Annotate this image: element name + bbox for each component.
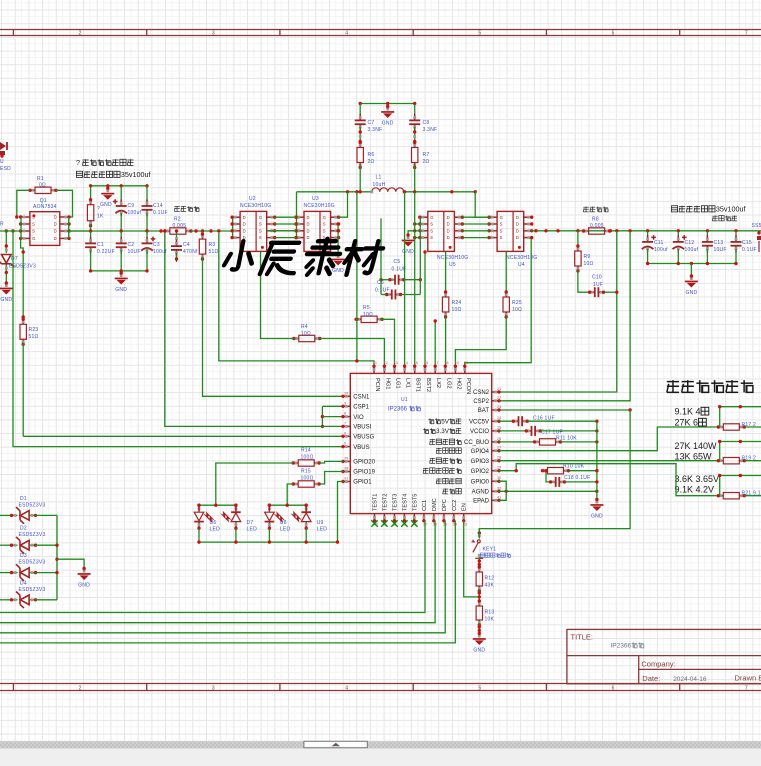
svg-text:GND: GND — [78, 583, 90, 589]
diode D1 body — [9, 507, 37, 524]
wire D2 anode from left edge — [0, 544, 9, 546]
wire D2 cathode to common — [35, 544, 57, 546]
svg-text:21: 21 — [497, 387, 501, 391]
svg-text:9: 9 — [344, 401, 346, 405]
wire R21 right to edge — [744, 495, 761, 497]
wire D3 anode from left edge — [0, 572, 9, 574]
svg-text:U6: U6 — [210, 520, 217, 526]
pin CSN1 of U1 — [343, 395, 350, 397]
capacitor C8 3.3NF body — [409, 114, 420, 131]
svg-text:S: S — [500, 228, 503, 233]
svg-text:C14: C14 — [153, 203, 163, 209]
capacitor C12 100uf — [677, 231, 679, 238]
svg-text:U8: U8 — [280, 520, 287, 526]
svg-text:2: 2 — [79, 686, 82, 692]
svg-text:R2: R2 — [174, 217, 181, 223]
resistor R15 body — [292, 481, 321, 487]
svg-text:U: U — [0, 159, 4, 165]
wire L1 rail down to U3 drains — [296, 192, 298, 238]
svg-text:S: S — [500, 222, 503, 227]
svg-text:D: D — [307, 235, 310, 240]
sheet frame top border — [0, 29, 761, 31]
svg-text:100uf: 100uf — [654, 247, 668, 253]
svg-text:GPIO0: GPIO0 — [471, 479, 490, 485]
svg-text:100Ω: 100Ω — [301, 476, 314, 482]
pin VCCIO of U1 — [492, 430, 499, 432]
svg-text:R24: R24 — [452, 300, 462, 306]
wire bus CC1 — [0, 521, 425, 613]
svg-text:VBUSG: VBUSG — [353, 435, 374, 441]
wire VIO net stub — [322, 416, 343, 418]
svg-text:NCE30H10G: NCE30H10G — [240, 203, 271, 209]
svg-text:D: D — [54, 229, 57, 234]
resistor R21 body — [717, 493, 746, 499]
pin TEST2 of U1 — [383, 514, 385, 521]
svg-text:100Ω: 100Ω — [301, 455, 314, 461]
svg-text:26: 26 — [497, 437, 501, 441]
svg-text:29: 29 — [497, 466, 501, 470]
pin CSN2 of U1 — [492, 391, 499, 393]
svg-text:VIO: VIO — [353, 415, 364, 421]
wire mid drop from L1 rail — [356, 192, 358, 361]
wire CSN2 sense drop — [500, 231, 617, 392]
wire D1 anode from left edge — [0, 514, 9, 516]
svg-text:NCE30H10G: NCE30H10G — [437, 255, 468, 261]
wire R6 to L1 rail — [359, 164, 361, 192]
wire L1 switch-node rail — [297, 191, 372, 193]
svg-text:S: S — [430, 228, 433, 233]
svg-text:51Ω: 51Ω — [29, 334, 39, 340]
wire R5 right leg to LG1 pin — [380, 319, 394, 366]
wire bus CC2 — [0, 521, 455, 643]
svg-text:1K: 1K — [97, 214, 104, 220]
wire U5 source stubs tie to BST1 column — [415, 223, 421, 225]
transistor U3 body — [294, 211, 340, 251]
svg-text:43K: 43K — [485, 583, 495, 589]
resistor R24 10R — [445, 251, 447, 293]
wire R14 right to GPIO20 — [319, 461, 343, 463]
capacitor C3 100uf — [146, 231, 148, 241]
resistor R9 body — [575, 244, 581, 272]
svg-text:31: 31 — [344, 477, 348, 481]
svg-text:25: 25 — [497, 426, 501, 430]
svg-text:U1: U1 — [401, 397, 408, 403]
resistor R8 body — [582, 228, 611, 234]
svg-text:D: D — [447, 228, 450, 233]
svg-text:C1: C1 — [97, 242, 104, 248]
wire EN to divider junction — [464, 521, 480, 597]
svg-text:AGND: AGND — [472, 490, 490, 496]
svg-text:LX1: LX1 — [405, 378, 411, 388]
svg-text:GND: GND — [0, 297, 12, 303]
wire U2-U3 gap links — [274, 216, 296, 218]
svg-text:10Ω: 10Ω — [452, 307, 462, 313]
diode D8 clipped at left edge — [0, 142, 6, 150]
svg-text:S: S — [259, 228, 262, 233]
svg-text:LX2: LX2 — [435, 378, 441, 388]
wire input caps bottom rail — [648, 263, 736, 265]
capacitor C5 body — [388, 275, 405, 285]
wire Q1 right pads to rail — [69, 230, 91, 232]
wire bus DPC — [0, 521, 445, 633]
svg-text:C18 0.1UF: C18 0.1UF — [564, 475, 590, 481]
svg-text:7: 7 — [344, 421, 346, 425]
svg-text:D: D — [447, 235, 450, 240]
svg-text:PCON: PCON — [465, 378, 471, 394]
svg-text:23: 23 — [497, 405, 501, 409]
resistor R19 body — [717, 458, 746, 464]
svg-text:D4: D4 — [20, 580, 27, 586]
svg-text:GPIO19: GPIO19 — [353, 470, 375, 476]
ground — [402, 233, 415, 255]
svg-text:?: ? — [76, 158, 80, 167]
pin GPIO2 of U1 — [492, 470, 499, 472]
svg-text:10Ω: 10Ω — [301, 331, 311, 337]
wire R15 left to LED cluster2 — [287, 484, 293, 505]
frame zone ticks and numbers — [12, 29, 14, 35]
pin TEST4 of U1 — [403, 514, 405, 521]
wire R5 left leg to BST1 drop — [357, 318, 358, 320]
svg-text:2024-04-16: 2024-04-16 — [673, 676, 707, 683]
svg-text:24: 24 — [497, 416, 501, 420]
svg-text:CC2: CC2 — [452, 500, 458, 511]
svg-text:C2: C2 — [128, 242, 135, 248]
wire Q1 gate down to R23 — [21, 238, 24, 320]
svg-text:R12: R12 — [485, 576, 495, 582]
svg-text:5: 5 — [344, 442, 346, 446]
wire R11 right to common — [561, 441, 597, 443]
pin BST2 of U1 — [424, 367, 426, 374]
op-amp U1 IP2366 main chip body — [350, 373, 491, 513]
svg-text:R1: R1 — [37, 176, 44, 182]
svg-text:D2: D2 — [20, 526, 27, 532]
wire R1 right leg — [56, 190, 73, 217]
wire LED cathode rail — [199, 541, 338, 543]
svg-text:C10: C10 — [592, 275, 602, 281]
wire U2 left pad column — [232, 217, 234, 237]
svg-text:8: 8 — [344, 412, 346, 416]
capacitor C18 body — [549, 477, 566, 487]
pin PCON of U1 — [464, 367, 466, 374]
svg-text:U4: U4 — [518, 262, 525, 268]
svg-text:D: D — [243, 222, 246, 227]
pin VCC5V of U1 — [492, 420, 499, 422]
wire EPAD to AGND — [499, 491, 507, 500]
wire Q1 right pad column — [68, 217, 70, 238]
wire VBUSI net — [165, 231, 344, 426]
wire R25 bottom to HG2 pin — [455, 316, 506, 367]
svg-text:SS5: SS5 — [752, 223, 761, 229]
wire R13 to ground — [478, 623, 480, 634]
resistor R1 0R body — [28, 187, 57, 193]
svg-text:R3: R3 — [209, 242, 216, 248]
svg-text:D: D — [243, 215, 246, 220]
svg-text:R15: R15 — [301, 469, 311, 475]
svg-text:6: 6 — [612, 686, 615, 692]
wire R1 left leg — [17, 190, 30, 217]
svg-text:GPIO20: GPIO20 — [353, 460, 375, 466]
diode D4 body — [9, 592, 37, 609]
svg-text:9.1K 4: 9.1K 4 — [675, 407, 701, 417]
svg-text:LED: LED — [317, 527, 328, 533]
svg-text:C7: C7 — [368, 120, 375, 126]
resistor R25 10R — [505, 251, 507, 293]
svg-text:D: D — [516, 235, 519, 240]
wire R14 left to LED cluster1 — [216, 463, 293, 505]
svg-text:U5: U5 — [449, 262, 456, 268]
wire U5-U4 gap links — [462, 216, 490, 218]
svg-text:30: 30 — [497, 476, 501, 480]
svg-text:GND: GND — [332, 268, 344, 274]
pin CC_BUO of U1 — [492, 441, 499, 443]
capacitor C11 body — [642, 235, 656, 252]
pin GPIO20 of U1 — [343, 460, 350, 462]
wire LED bottoms to cathode rail — [198, 528, 200, 542]
wire top filter rail — [360, 103, 415, 105]
panel collapse handle — [304, 741, 367, 747]
svg-text:27K 140W: 27K 140W — [675, 441, 718, 451]
svg-text:LED: LED — [247, 527, 258, 533]
capacitor C1 0.22UF — [90, 231, 92, 241]
svg-text:LED: LED — [210, 527, 221, 533]
svg-text:10Ω: 10Ω — [512, 307, 522, 313]
svg-text:NCE30H10G: NCE30H10G — [304, 203, 335, 209]
ground — [590, 498, 603, 520]
svg-text:S: S — [323, 222, 326, 227]
pin CC1 of U1 — [423, 514, 425, 521]
svg-text:0.1UF: 0.1UF — [742, 247, 757, 253]
capacitor C7 3.3NF body — [355, 114, 366, 131]
wire CSP1-VIO-VBUSI tie vertical — [321, 406, 323, 426]
pin GPIO0 of U1 — [492, 480, 499, 482]
LED U9 body — [290, 504, 311, 530]
capacitor C13 10UF — [706, 231, 708, 238]
svg-text:9.1K 4.2V: 9.1K 4.2V — [675, 485, 715, 495]
switch KEY1 — [472, 529, 484, 559]
wire L1 rail down to U4 drain — [475, 192, 489, 217]
wire C18 right to common — [565, 481, 597, 483]
svg-text:R11 10K: R11 10K — [556, 436, 577, 442]
pin AGND of U1 — [492, 490, 499, 492]
capacitor C9 100uf — [120, 186, 122, 201]
svg-text:DMC: DMC — [432, 498, 438, 511]
svg-text:BST1: BST1 — [415, 378, 421, 392]
svg-text:TEST4: TEST4 — [402, 494, 408, 511]
LED D7 body — [220, 504, 241, 530]
svg-text:D: D — [447, 222, 450, 227]
LED U8 body — [265, 504, 286, 530]
wire R23 bottom to VBUSG — [22, 343, 24, 436]
svg-text:S: S — [32, 229, 35, 234]
svg-text:D: D — [54, 222, 57, 227]
svg-text:C11: C11 — [654, 240, 664, 246]
svg-text:10Ω: 10Ω — [363, 312, 373, 318]
svg-text:6: 6 — [612, 31, 615, 37]
svg-text:27: 27 — [497, 446, 501, 450]
svg-text:R4: R4 — [301, 324, 308, 330]
svg-text:GPIO2: GPIO2 — [471, 469, 490, 475]
svg-text:LG2: LG2 — [445, 378, 451, 389]
svg-text:ESD5Z3V3: ESD5Z3V3 — [19, 587, 46, 593]
resistor R5 body — [354, 316, 383, 322]
capacitor C17 body — [525, 426, 542, 436]
wire U4 right pads to PCON pin — [465, 238, 531, 367]
wire U3 gate column down to caps — [380, 218, 382, 294]
svg-text:D: D — [54, 236, 57, 241]
svg-text:13K 65W: 13K 65W — [675, 452, 713, 462]
pin EPAD of U1 — [492, 499, 499, 501]
capacitor C17 1UF — [499, 430, 526, 432]
wire LED cluster2 anode rail — [269, 504, 306, 506]
wire R10 C18 left tie — [546, 471, 550, 482]
svg-text:GPIO1: GPIO1 — [353, 480, 372, 486]
capacitor C3 body — [141, 237, 155, 254]
svg-text:G: G — [32, 236, 35, 241]
text current sample right — [583, 207, 588, 212]
pin TEST5 of U1 — [413, 514, 415, 521]
svg-text:17: 17 — [434, 361, 438, 365]
svg-text:35v100uf: 35v100uf — [121, 170, 151, 179]
svg-text:Date:: Date: — [642, 674, 660, 683]
svg-text:41: 41 — [497, 495, 501, 499]
wire R19 bypass top — [719, 442, 721, 461]
resistor R13 body — [476, 599, 482, 626]
transistor U4 body — [487, 211, 533, 251]
svg-text:100uf: 100uf — [128, 210, 142, 216]
svg-text:5: 5 — [478, 31, 481, 37]
resistor R14 body — [292, 460, 321, 466]
svg-text:D: D — [307, 222, 310, 227]
wire rail right of U4 — [531, 230, 761, 232]
pin GPIO3 of U1 — [492, 460, 499, 462]
wire C6 left leg — [381, 294, 386, 296]
svg-text:S: S — [32, 222, 35, 227]
svg-text:3: 3 — [212, 686, 215, 692]
svg-text:IP2366: IP2366 — [611, 643, 632, 650]
svg-text:C9: C9 — [128, 203, 135, 209]
capacitor C15 body — [731, 235, 742, 252]
pin CSP1 of U1 — [343, 405, 350, 407]
pin GPIO19 of U1 — [343, 471, 350, 473]
svg-text:CSP1: CSP1 — [353, 405, 369, 411]
wire LED cluster1 anode rail — [199, 504, 236, 506]
wire VBUSG net — [23, 435, 343, 437]
wire R15 right to GPIO19 — [319, 472, 343, 485]
diode D7 ESD5Z3V3 — [0, 231, 14, 283]
svg-text:3: 3 — [212, 31, 215, 37]
svg-text:D: D — [54, 215, 57, 220]
pin VIO of U1 — [343, 416, 350, 418]
wire VBUS net — [13, 231, 343, 447]
capacitor C2 10UF — [120, 231, 122, 241]
svg-text:S: S — [259, 222, 262, 227]
svg-text:GPIO3: GPIO3 — [471, 459, 490, 465]
wire ESD common to ground — [57, 559, 84, 568]
wire R21 bypass top — [719, 476, 721, 496]
wire U5 source to ground stem — [408, 231, 415, 235]
wire C5 left leg — [381, 279, 390, 281]
wire C16 right to common — [527, 420, 597, 422]
wire D4 cathode to common — [35, 599, 57, 601]
svg-text:NCE30H10G: NCE30H10G — [506, 255, 537, 261]
svg-text:VBUS: VBUS — [353, 445, 369, 451]
ground — [115, 271, 128, 293]
wire LX2 vertical to pin — [434, 321, 436, 367]
capacitor C13 body — [702, 235, 713, 252]
resistor R7 2R body — [412, 141, 418, 169]
wire R7 to L1 rail — [414, 164, 416, 192]
pin BAT of U1 — [492, 409, 499, 411]
svg-text:6: 6 — [344, 431, 346, 435]
wire R12 to R13 — [478, 589, 480, 601]
LED U6 body — [194, 504, 215, 530]
svg-text:CSP2: CSP2 — [473, 399, 489, 405]
svg-text:7: 7 — [745, 686, 748, 692]
pin HG2 of U1 — [454, 367, 456, 374]
resistor R4 body — [292, 335, 321, 341]
svg-text:AON7534: AON7534 — [33, 204, 57, 210]
wire CSN1 net — [203, 257, 344, 396]
capacitor C4 body — [171, 240, 182, 257]
pin LG1 of U1 — [394, 367, 396, 374]
svg-text:D: D — [516, 228, 519, 233]
wire bus DMC — [0, 521, 435, 623]
pin TEST1 of U1 — [374, 514, 376, 521]
svg-text:S: S — [323, 228, 326, 233]
resistor R? 1K — [90, 186, 92, 201]
wire cap bank bottom rail — [91, 270, 147, 272]
svg-text:CC1: CC1 — [422, 500, 428, 511]
svg-text:0Ω: 0Ω — [39, 183, 46, 189]
svg-text:5V: 5V — [441, 418, 450, 425]
svg-text:3.3NF: 3.3NF — [368, 127, 383, 133]
svg-text:TEST2: TEST2 — [382, 494, 388, 511]
wire GPIO4 to row1 — [499, 427, 717, 451]
pin HG1 of U1 — [383, 367, 385, 374]
svg-text:R23: R23 — [29, 327, 39, 333]
text power input — [712, 216, 717, 221]
svg-text:?: ? — [97, 206, 100, 212]
svg-text:C3: C3 — [153, 242, 160, 248]
svg-text:GND: GND — [115, 287, 127, 293]
transistor Q1 AON7534 — [19, 212, 71, 246]
wire PCIN net horizontal — [219, 233, 374, 367]
wire C8 branch — [414, 104, 416, 118]
resistor R25 body — [503, 290, 509, 318]
wire main rail left segment — [5, 229, 8, 232]
svg-text:3.3V: 3.3V — [436, 428, 450, 435]
svg-text:D3: D3 — [20, 553, 27, 559]
svg-text:10Ω: 10Ω — [584, 261, 594, 267]
svg-text:D: D — [307, 215, 310, 220]
resistor R11 body — [533, 439, 562, 445]
capacitor C6 body — [385, 290, 402, 300]
wire D1 cathode to common — [35, 514, 57, 516]
svg-text:100uf: 100uf — [685, 247, 699, 253]
capacitor C16 1UF — [499, 420, 513, 422]
resistor R2 body — [163, 228, 192, 234]
wire BST1 tall vertical — [414, 192, 416, 367]
svg-text:10: 10 — [344, 391, 348, 395]
svg-text:ESD5Z3V3: ESD5Z3V3 — [19, 560, 46, 566]
wire cap bank top rail — [91, 185, 147, 187]
no-connect marks on TEST pins — [371, 520, 377, 526]
ground — [473, 632, 486, 654]
svg-text:19: 19 — [454, 361, 458, 365]
ground — [381, 105, 394, 127]
svg-text:51Ω: 51Ω — [209, 249, 219, 255]
capacitor C15 0.1UF — [735, 231, 737, 238]
